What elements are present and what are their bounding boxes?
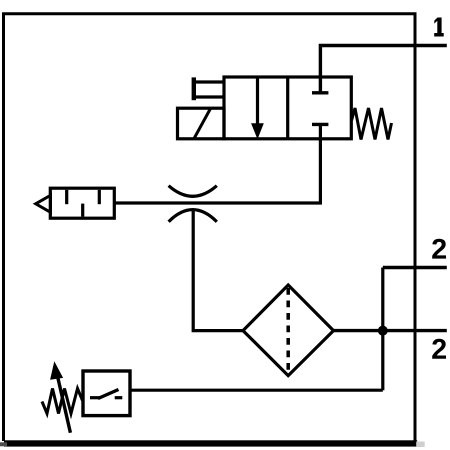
wire port 2 upper [383,266,447,269]
switch contact right [115,396,123,399]
pressure switch S1 box [83,371,130,416]
manual override bar [192,77,196,100]
silencer inner baffle 2 [81,204,84,217]
wire venturi to filter [193,210,243,331]
switch contact left [90,396,100,399]
solenoid coil [178,108,225,139]
port 1 label [434,18,444,37]
valve blocked port T (top) [312,91,328,94]
filter dashed element [286,288,290,373]
watermark grey right [416,442,425,448]
wire valve bottom port to flow line [114,124,320,203]
wire port 1 to valve top port [320,46,446,94]
switch spring [42,389,83,414]
valve V1 body [224,77,351,139]
watermark grey left [0,442,7,446]
silencer inner baffle 1 [65,190,68,204]
valve flow arrow (left compartment) [251,78,264,139]
valve blocked port T (bottom) [312,123,328,126]
wire pressure switch to junction [130,389,383,392]
wire junction vertical [381,268,384,391]
manual override lower line [194,95,225,98]
venturi nozzle upper arc [169,186,217,197]
manual override upper line [194,80,225,83]
adjustment arrow shaft [58,378,71,433]
adjustment arrow head [50,361,63,379]
wire filter to port 2 [334,329,447,332]
switch lever [98,390,119,399]
silencer exhaust triangle [36,195,51,212]
port 2 lower label [432,339,446,359]
venturi nozzle lower arc [169,210,217,222]
frame bottom thick bar [4,440,417,446]
junction node [378,326,388,336]
filter F1 diamond [243,285,334,376]
port 2 upper label [432,239,446,259]
solenoid diagonal [194,109,211,139]
silencer body [50,188,114,218]
valve return spring [352,108,392,140]
valve compartment divider [286,77,289,139]
silencer inner baffle 3 [98,190,101,204]
